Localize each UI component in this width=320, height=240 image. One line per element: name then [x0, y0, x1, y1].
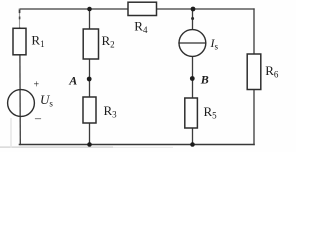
wire Is branch	[192, 9, 194, 145]
resistor R4	[128, 2, 157, 35]
wire bottom net	[20, 144, 255, 146]
junction dot bottom of R5 branch	[190, 142, 195, 147]
svg-text:+: +	[34, 80, 40, 91]
node B	[190, 72, 209, 86]
resistor R1	[13, 28, 45, 55]
wire top net	[20, 8, 255, 10]
resistor R5	[185, 98, 217, 128]
resistor R3	[83, 97, 117, 123]
resistor R6	[247, 54, 279, 90]
blob on Is lead	[191, 17, 194, 20]
wire middle branch (R2-A-R3)	[89, 9, 91, 145]
svg-text:–: –	[34, 111, 42, 125]
voltage source Us	[8, 80, 54, 125]
paper smudge bottom	[0, 146, 173, 148]
wire left branch upper lead	[19, 9, 21, 29]
node A	[68, 74, 91, 88]
current source Is	[179, 30, 219, 57]
paper smudge left edge	[10, 118, 12, 148]
junction dot bottom of middle branch	[87, 142, 92, 147]
resistor R2	[83, 29, 114, 59]
junction dot top of Is branch	[191, 7, 196, 12]
wire left branch	[19, 28, 22, 145]
junction dot top of middle branch	[87, 7, 92, 12]
wire right branch	[253, 9, 255, 145]
svg-text:A: A	[68, 74, 77, 88]
svg-text:B: B	[200, 72, 209, 86]
